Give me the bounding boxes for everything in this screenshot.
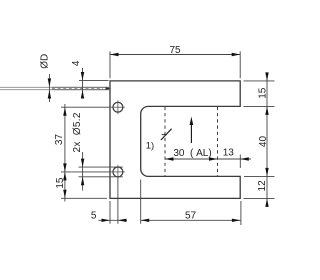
svg-text:12: 12: [257, 180, 268, 192]
svg-text:37: 37: [54, 134, 65, 146]
svg-text:1): 1): [146, 141, 154, 152]
svg-text:75: 75: [169, 45, 181, 56]
svg-text:13: 13: [223, 148, 235, 159]
svg-text:15: 15: [258, 87, 269, 99]
svg-text:40: 40: [258, 136, 269, 148]
svg-text:57: 57: [185, 211, 197, 222]
svg-text:15: 15: [55, 177, 66, 189]
svg-text:ØD: ØD: [39, 54, 50, 69]
svg-text:4: 4: [71, 60, 82, 66]
svg-text:5: 5: [91, 211, 97, 222]
svg-text:30 ( AL): 30 ( AL): [173, 148, 211, 159]
svg-text:2x Ø5.2: 2x Ø5.2: [72, 112, 83, 152]
